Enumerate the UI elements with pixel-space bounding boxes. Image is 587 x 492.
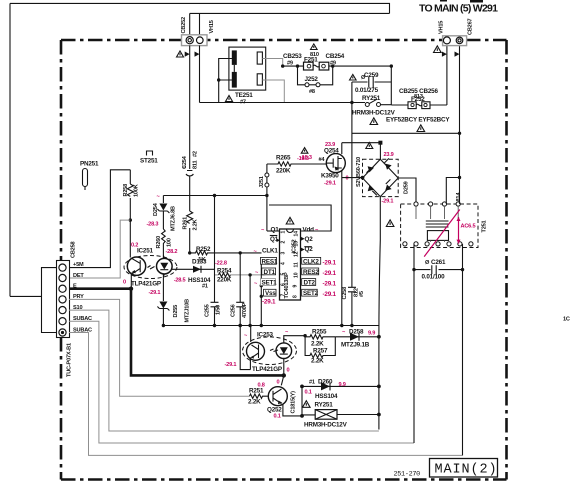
fuse F251 [304, 62, 329, 70]
svg-text:+5M: +5M [73, 262, 84, 268]
svg-text:C1815(Y): C1815(Y) [291, 391, 297, 414]
svg-text:811: 811 [193, 160, 199, 169]
svg-text:CB252: CB252 [181, 17, 187, 34]
svg-text:R255: R255 [312, 329, 327, 336]
wire: ground bus y=325.5 [163, 325, 379, 327]
svg-text:#1: #1 [309, 380, 315, 386]
svg-text:#9: #9 [330, 61, 336, 67]
svg-text:2.2K: 2.2K [248, 399, 261, 406]
svg-text:0: 0 [287, 368, 290, 374]
svg-text:R254: R254 [217, 268, 232, 275]
svg-text:9: 9 [293, 285, 299, 288]
svg-text:-29.1: -29.1 [323, 291, 337, 298]
svg-text:10: 10 [294, 272, 300, 278]
svg-text:220K: 220K [217, 277, 232, 284]
dash-dot board border [61, 40, 507, 480]
IC251 emitter to E node [130, 274, 132, 289]
svg-text:TO MAIN (5) W291: TO MAIN (5) W291 [419, 3, 498, 15]
svg-text:CB254: CB254 [326, 53, 345, 60]
svg-text:S2VB60-710: S2VB60-710 [356, 157, 362, 187]
svg-text:#8: #8 [309, 89, 315, 95]
svg-text:D254: D254 [153, 202, 159, 216]
svg-text:0.1: 0.1 [305, 390, 312, 396]
svg-text:7: 7 [281, 294, 287, 297]
optocoupler IC251 [124, 255, 177, 278]
svg-text:2: 2 [281, 241, 287, 244]
wire: SUBAC2 [69, 333, 463, 456]
capacitor C261 loop [414, 244, 463, 456]
diode D258 [335, 336, 379, 338]
svg-text:T251: T251 [482, 220, 488, 232]
svg-text:J252: J252 [305, 76, 319, 83]
svg-text:220K: 220K [276, 168, 291, 175]
svg-text:RY251: RY251 [315, 402, 334, 409]
svg-text:11: 11 [294, 262, 300, 268]
zener D254 [162, 196, 164, 204]
resistor R261 [187, 196, 193, 253]
svg-text:MTZJ9.1B: MTZJ9.1B [341, 342, 370, 349]
svg-text:-29.1: -29.1 [323, 270, 337, 277]
fuse F252 [391, 104, 408, 106]
svg-text:Vdd: Vdd [303, 226, 315, 233]
svg-text:HSS104: HSS104 [315, 393, 338, 400]
warning triangle above IC252 [286, 217, 294, 224]
wire: top inner loop y=13.4 [190, 12, 390, 14]
resistor R258 [127, 170, 133, 220]
svg-text:-29.1: -29.1 [225, 362, 237, 368]
svg-text:TE251: TE251 [235, 92, 253, 99]
svg-text:Q252: Q252 [267, 407, 282, 414]
svg-text:D255: D255 [173, 305, 179, 318]
zener D255 [162, 274, 164, 301]
svg-text:PN251: PN251 [80, 161, 99, 168]
svg-text:C255: C255 [205, 304, 211, 317]
svg-text:MTZJ10B: MTZJ10B [185, 299, 191, 323]
svg-text:D260: D260 [318, 379, 333, 386]
wire: DT1 stub down x=250.1 [249, 275, 251, 326]
svg-text:F252: F252 [411, 96, 425, 103]
svg-text:14: 14 [294, 231, 300, 237]
wire: Q254 drain up and bus y=142.7 [342, 143, 381, 160]
svg-text:DET: DET [73, 273, 84, 279]
svg-text:0.1: 0.1 [274, 414, 281, 420]
wire: E thick [69, 289, 284, 376]
bracket jumper pins1-7 [42, 268, 57, 333]
svg-text:TLP421GP: TLP421GP [131, 281, 161, 288]
IC252 pin1 wire [267, 230, 280, 232]
warning triangle TE251 [226, 96, 233, 102]
resistor R251 [250, 394, 269, 398]
wire: neutral line y=102.5 from CB252 pin2 to RY251 [200, 102, 366, 104]
wire: S10 [69, 310, 379, 431]
svg-text:6: 6 [281, 283, 287, 286]
svg-text:IC251: IC251 [137, 248, 154, 255]
svg-text:Q254: Q254 [324, 148, 339, 155]
warning triangle below CB252 [177, 51, 184, 57]
svg-text:R260: R260 [156, 236, 162, 249]
resistor R260 [162, 229, 166, 259]
svg-text:C256: C256 [231, 304, 237, 317]
resistor R265 [267, 162, 327, 166]
svg-text:EYF52BCY EYF52BCY: EYF52BCY EYF52BCY [386, 117, 450, 124]
svg-text:D259: D259 [404, 181, 410, 194]
Q252 emitter wire [283, 405, 302, 416]
capacitor C259 [352, 77, 391, 88]
wire: Q254 source down [341, 171, 343, 327]
svg-text:5: 5 [281, 273, 287, 276]
svg-text:D133: D133 [192, 259, 207, 266]
wire: bridge right to T251 [398, 178, 416, 204]
svg-text:9.9: 9.9 [339, 382, 346, 388]
svg-text:-28.5: -28.5 [174, 277, 186, 283]
svg-text:0: 0 [123, 279, 126, 285]
top edge cut marks [470, 0, 483, 3]
svg-text:ø: ø [183, 165, 186, 170]
connector CB252 [181, 17, 215, 46]
svg-text:-22.8: -22.8 [215, 261, 227, 267]
svg-text:-28.3: -28.3 [147, 222, 159, 228]
svg-text:3: 3 [281, 252, 287, 255]
connector CB267 [447, 46, 460, 134]
svg-text:K3950: K3950 [321, 173, 339, 180]
svg-text:C261: C261 [431, 259, 446, 266]
svg-text:TLP421GP: TLP421GP [252, 366, 282, 373]
svg-text:MAIN(2): MAIN(2) [435, 463, 498, 478]
svg-text:MTZJ6.8B: MTZJ6.8B [171, 206, 177, 231]
capacitor C254 [182, 151, 199, 195]
wire: TE251 right connections [262, 59, 284, 103]
svg-text:CB267: CB267 [468, 18, 474, 35]
svg-text:SET1: SET1 [262, 280, 278, 287]
svg-text:-29.1: -29.1 [323, 281, 337, 288]
capacitor C256 [239, 253, 241, 302]
svg-text:R257: R257 [313, 348, 328, 355]
wire: CB252 pins up [190, 13, 200, 35]
svg-text:DT1: DT1 [264, 269, 276, 276]
svg-text:4700P: 4700P [242, 302, 248, 318]
svg-text:0.01/100: 0.01/100 [422, 274, 446, 281]
wire: DET [69, 220, 130, 278]
svg-text:R252: R252 [196, 246, 211, 253]
IC252 pin numbers [281, 231, 300, 299]
svg-text:#2: #2 [193, 151, 199, 157]
svg-text:C258: C258 [342, 287, 348, 300]
svg-text:SET2: SET2 [303, 290, 319, 297]
IC252 Vdd loop wire [267, 196, 331, 232]
wire: CB252 pin2 down with polarity mark [199, 46, 201, 103]
wires IC253 LED [284, 336, 305, 376]
svg-text:#5: #5 [359, 291, 365, 297]
wire: relay drive bus y=133.3 [352, 132, 460, 134]
svg-text:23.9: 23.9 [325, 142, 335, 148]
svg-text:CLK2: CLK2 [303, 258, 319, 265]
wire: mains live bus y=66.1 [283, 65, 392, 67]
svg-text:1/50: 1/50 [216, 305, 222, 315]
diode D260 [302, 385, 379, 387]
svg-text:J251: J251 [259, 176, 265, 188]
capacitor C255 [214, 196, 216, 303]
svg-text:HRM3H-DC12V: HRM3H-DC12V [352, 110, 396, 117]
svg-text:R251: R251 [249, 388, 264, 395]
svg-text:4: 4 [281, 262, 287, 265]
svg-text:251-270: 251-270 [394, 471, 421, 479]
relay coil RY251 [303, 401, 311, 408]
line filter TE251 [229, 47, 266, 90]
pink AC6.5 arrow [424, 210, 460, 257]
wire: RES1/SET1/Vss left rail x=261.3 [260, 261, 262, 326]
svg-text:-29.1: -29.1 [324, 181, 336, 187]
svg-text:RY251: RY251 [362, 95, 381, 102]
svg-text:CB258: CB258 [71, 241, 77, 258]
optocoupler IC253 [243, 337, 297, 365]
staple ST251 [147, 151, 153, 156]
wire: CLK1 line y=252.9 with resistor R252 [190, 251, 262, 255]
transistor Q252 C1815 [268, 387, 287, 406]
svg-text:1C: 1C [563, 317, 570, 323]
svg-text:#1: #1 [202, 284, 208, 290]
wire: C259/RY251 left vertical x=351.9 [351, 82, 353, 287]
connector CB258 [57, 241, 77, 377]
svg-text:#9: #9 [287, 61, 293, 67]
wire: PRY [69, 299, 250, 396]
wire: top outer loop y=3.4 [10, 3, 390, 296]
svg-text:R258: R258 [123, 184, 129, 197]
svg-text:CB253: CB253 [283, 53, 302, 60]
wire: bridge bottom long vertical [379, 197, 380, 430]
svg-text:0: 0 [277, 380, 280, 386]
svg-text:2.2K: 2.2K [193, 219, 199, 230]
resistors R255/R257 parallel [305, 335, 335, 339]
svg-text:100: 100 [167, 238, 173, 247]
wire: R258 to IC251 collector [129, 220, 131, 257]
svg-text:-29.1: -29.1 [149, 290, 161, 296]
svg-text:2.2K: 2.2K [311, 358, 324, 365]
svg-text:100K: 100K [134, 184, 140, 197]
wire: mains vertical to fuse line x=391.3 [390, 66, 392, 105]
wire: CB267 pin2 to T251 [459, 133, 461, 204]
svg-text:-29.1: -29.1 [262, 299, 276, 306]
svg-text:AC6.5: AC6.5 [461, 224, 476, 230]
svg-text:814: 814 [456, 192, 462, 202]
svg-text:CLK1: CLK1 [262, 248, 278, 255]
jumper J252 loop [298, 66, 333, 85]
wire: +5M rail [69, 170, 130, 268]
svg-text:0.01/275: 0.01/275 [355, 87, 379, 94]
wire: SUBAC1 [69, 321, 414, 443]
jumper J251 [266, 187, 268, 196]
svg-text:R261: R261 [183, 217, 189, 230]
diode D133 [171, 268, 214, 270]
svg-text:1: 1 [281, 231, 287, 234]
svg-text:R265: R265 [276, 155, 291, 162]
svg-text:-18.3: -18.3 [300, 155, 312, 161]
svg-text:Q2: Q2 [305, 236, 314, 243]
svg-text:RES2: RES2 [303, 269, 319, 276]
svg-text:HRM3H-DC12V: HRM3H-DC12V [304, 422, 348, 429]
svg-text:8: 8 [293, 295, 299, 298]
svg-text:IC253: IC253 [257, 332, 274, 339]
svg-text:VH15: VH15 [439, 21, 445, 34]
svg-text:23.9: 23.9 [384, 152, 394, 158]
svg-text:-28.2: -28.2 [166, 249, 178, 255]
wire: CB252 pin1 down with polarity mark [189, 46, 191, 170]
wire/resistor R254 on DT1 line [215, 274, 219, 276]
svg-text:9.9: 9.9 [368, 331, 375, 337]
svg-text:-29.1: -29.1 [323, 260, 337, 267]
svg-text:-29.1: -29.1 [382, 199, 394, 205]
svg-text:TUC-P07X-B1: TUC-P07X-B1 [67, 343, 73, 377]
wire: TE251 left connections [219, 59, 232, 103]
svg-text:ST251: ST251 [140, 158, 158, 165]
bridge rectifier D259 S2VB60 [363, 158, 399, 196]
svg-text:RES1: RES1 [262, 258, 278, 265]
svg-text:0: 0 [346, 176, 349, 182]
svg-text:12: 12 [294, 251, 300, 257]
svg-text:D258: D258 [349, 329, 364, 336]
svg-text:C259: C259 [364, 72, 379, 79]
transformer T251 [401, 202, 478, 248]
capacitor C258 [348, 287, 356, 292]
transistor Q254 K3950 [326, 154, 345, 173]
MAIN(2) box [430, 459, 498, 478]
svg-text:F251: F251 [304, 57, 318, 64]
IC252 TC4013BP [280, 229, 301, 300]
wire: node y=195.5 [163, 195, 267, 197]
svg-text:Vss: Vss [265, 290, 276, 297]
wires IC253 transistor [240, 326, 250, 370]
svg-text:VH15: VH15 [209, 20, 215, 33]
svg-text:2.2K: 2.2K [311, 341, 324, 348]
svg-text:13: 13 [294, 241, 300, 247]
svg-text:DT2: DT2 [304, 280, 316, 287]
svg-text:Q1: Q1 [271, 226, 280, 233]
